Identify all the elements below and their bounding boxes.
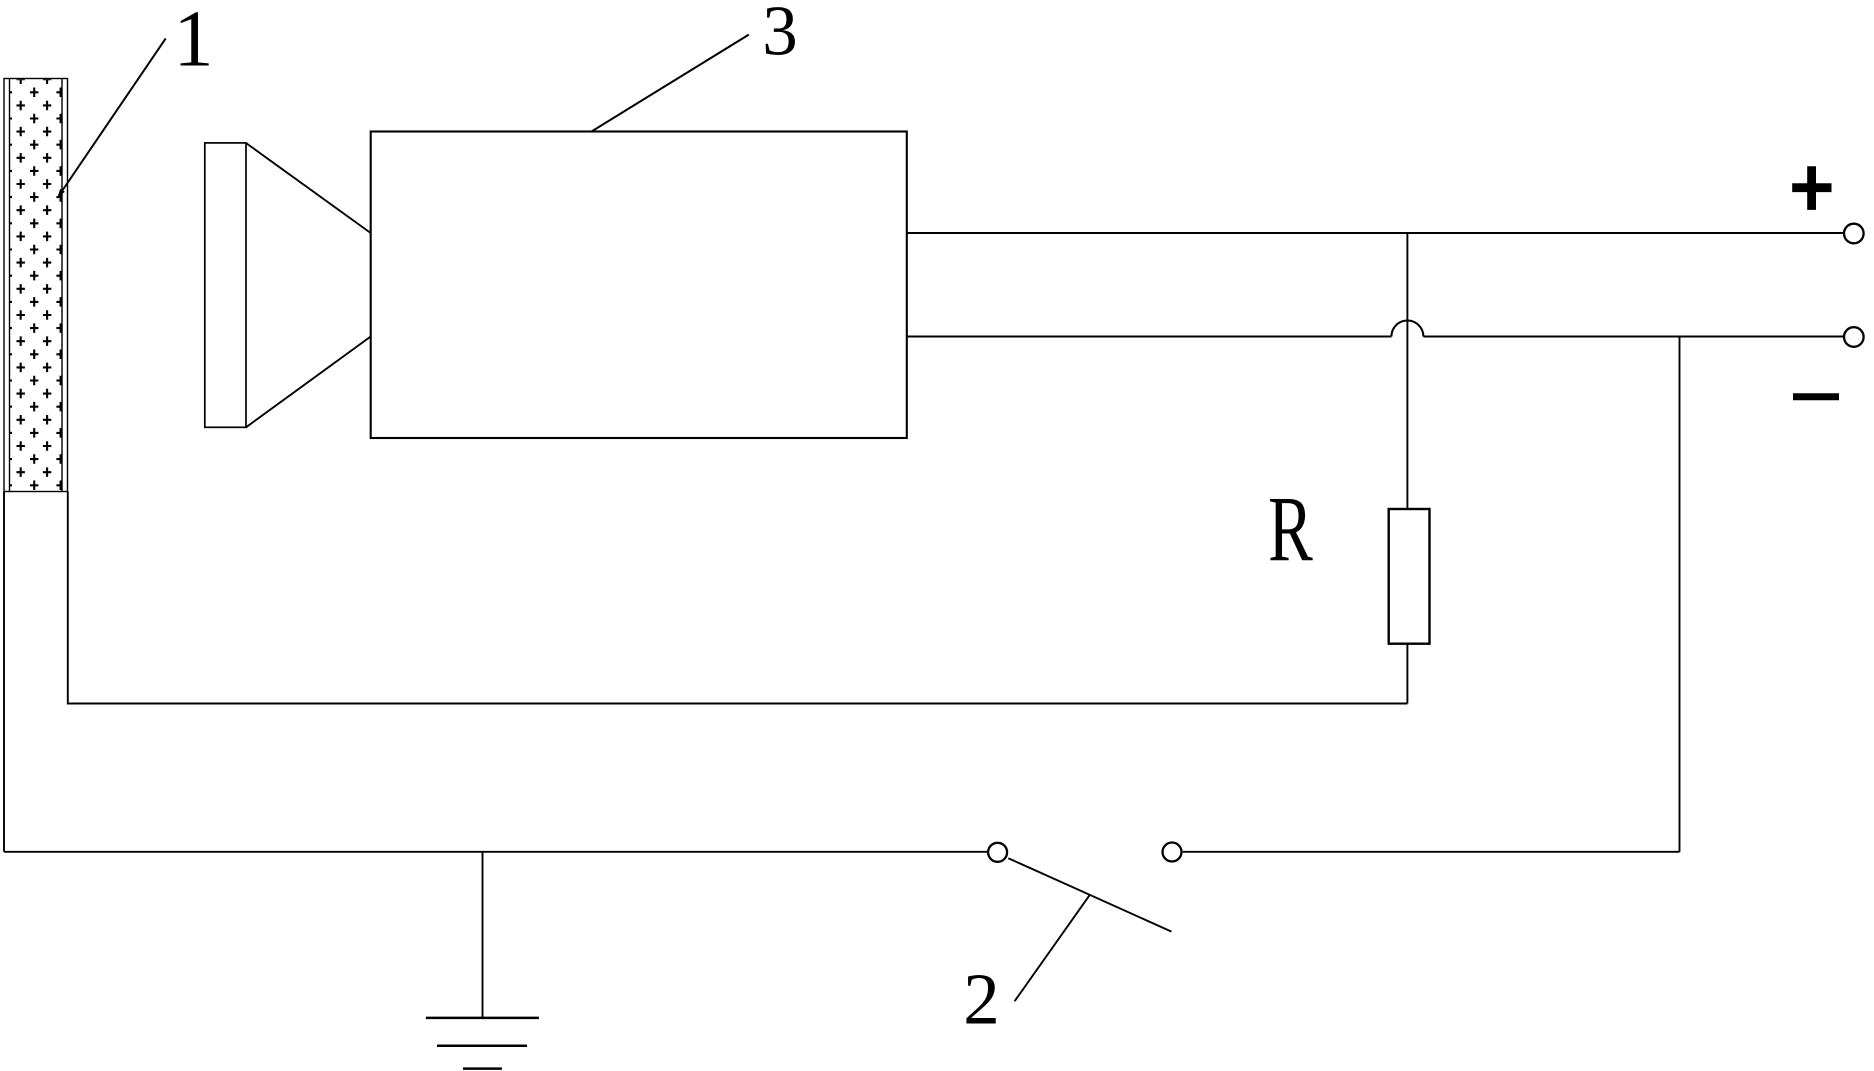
label 1 bbox=[174, 0, 214, 84]
wire: bottom rail to switch left contact bbox=[4, 851, 987, 853]
plus polarity sign bbox=[1792, 166, 1831, 210]
label 1 leader line bbox=[57, 38, 166, 198]
svg-text:R: R bbox=[1268, 478, 1313, 581]
wire hop over vertical bbox=[1391, 321, 1423, 337]
wire: plate left edge down to bottom rail bbox=[3, 492, 5, 852]
wire: feedback run from resistor to plate right edge bbox=[68, 492, 1408, 704]
minus polarity sign bbox=[1793, 393, 1839, 400]
terminal - circle bbox=[1844, 327, 1864, 347]
switch 2 blade bbox=[1008, 858, 1171, 931]
device box 3 bbox=[371, 132, 907, 439]
svg-text:3: 3 bbox=[762, 0, 798, 71]
wire: top output to + terminal bbox=[907, 232, 1844, 234]
lens plate bbox=[205, 143, 246, 427]
wire: switch right contact to drop bbox=[1183, 851, 1680, 853]
lens lower cone line bbox=[246, 337, 371, 428]
wire: hop to - terminal bbox=[1423, 336, 1843, 338]
ground bar 2 bbox=[437, 1045, 527, 1048]
resistor R body bbox=[1389, 509, 1430, 644]
wire: vertical from top wire through hop to resistor bbox=[1406, 233, 1408, 509]
label 3 bbox=[762, 0, 798, 71]
wire: bottom output to hop bbox=[907, 336, 1392, 338]
terminal + circle bbox=[1844, 224, 1864, 244]
wire: drop from - wire to switch side bbox=[1679, 337, 1681, 852]
ground bar 3 bbox=[463, 1067, 502, 1070]
ground bar 1 bbox=[426, 1017, 539, 1020]
switch 2 right contact bbox=[1163, 843, 1182, 862]
switch 2 left contact bbox=[988, 843, 1007, 862]
label 2 leader line bbox=[1015, 896, 1090, 1002]
electrode plate 1 inner lines bbox=[10, 79, 63, 492]
svg-text:1: 1 bbox=[174, 0, 214, 84]
label 2 bbox=[963, 959, 1000, 1040]
lens upper cone line bbox=[246, 143, 371, 233]
electrode plate 1 outer frame bbox=[4, 79, 68, 492]
label 3 leader line bbox=[592, 35, 749, 132]
electrode plate 1 plus-charge fill bbox=[4, 75, 65, 491]
svg-text:2: 2 bbox=[963, 959, 1000, 1040]
wire: resistor bottom lead bbox=[1406, 644, 1408, 704]
label R bbox=[1268, 478, 1313, 581]
ground stem bbox=[482, 852, 484, 1018]
